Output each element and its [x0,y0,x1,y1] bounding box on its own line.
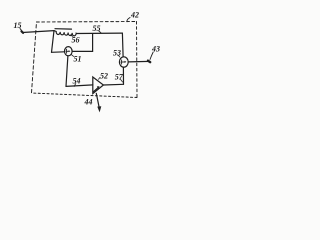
wire loop left vertical [52,31,55,53]
wire node 57 vertical to circle 53 [122,67,124,84]
label 42 leader [127,18,130,22]
op-amp output wire to node 57 [103,83,123,86]
dashed enclosure box 42 [32,22,138,98]
terminal node 15 leader [20,29,22,32]
inductor L56 winding [54,31,77,36]
source circle 53 [119,57,128,67]
sensor circle 51 [65,47,73,56]
svg-text:54: 54 [73,77,81,86]
svg-text:55: 55 [93,24,101,33]
op-amp 52 triangle [93,77,104,94]
svg-text:44: 44 [84,97,93,106]
output 44 line [96,93,99,107]
label 55 leader [99,31,102,33]
svg-text:51: 51 [74,54,82,63]
wire to amplifier input [66,85,93,87]
wire circle 53 up to top wire [121,33,124,56]
wire from terminal 15 to junction [23,31,55,33]
svg-text:52: 52 [100,72,108,81]
label 56 leader [71,35,73,37]
label 53 leader [118,55,120,57]
svg-text:57: 57 [115,73,124,82]
output 44 arrowhead [97,106,101,112]
svg-text:53: 53 [113,49,121,58]
input terminal dot [22,31,24,33]
arrow inside circle 53 [121,60,125,64]
inductor core bar [55,28,72,30]
wire from circle 51 down [66,56,68,87]
label 51 leader [72,55,74,57]
svg-text:56: 56 [72,36,80,45]
terminal 43 dot [148,61,150,62]
arrow inside circle 51 [66,49,69,53]
label 52 leader [99,78,100,80]
svg-text:42: 42 [130,10,139,19]
wire loop bottom right segment [72,50,92,52]
wire coil to corner node [77,32,123,34]
wire loop right vertical [92,34,94,52]
label 57 leader [121,79,123,82]
arrow inside op-amp from output 44 [94,88,99,92]
output wire to terminal 43 [129,60,150,63]
svg-text:15: 15 [14,21,22,30]
label 54 leader [74,84,76,87]
svg-text:43: 43 [151,45,160,54]
wire loop bottom left segment [52,51,65,54]
label 43 leader [150,52,153,60]
